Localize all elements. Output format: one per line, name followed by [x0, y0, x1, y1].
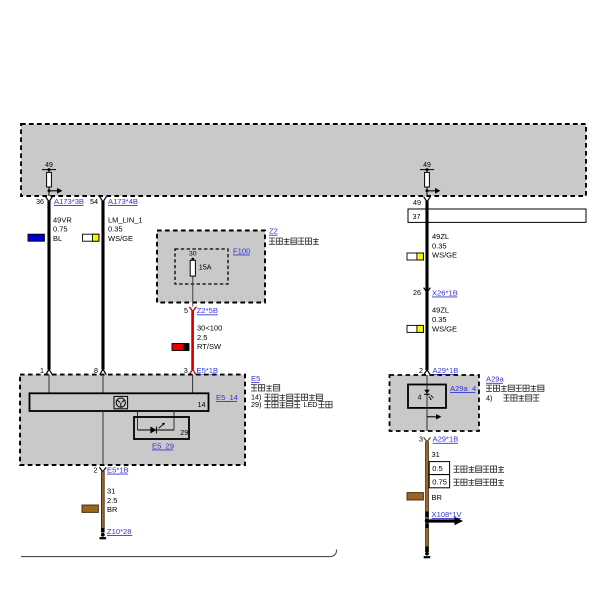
wire gauge option box 0.5: [429, 462, 449, 475]
svg-text:F100: F100: [233, 246, 250, 255]
svg-text:LM_LIN_1: LM_LIN_1: [108, 215, 143, 224]
colour swatch white/yellow WS/GE: [83, 234, 99, 241]
svg-text:A29a_4: A29a_4: [450, 384, 476, 393]
wire pin8 to module 14: [102, 375, 104, 394]
svg-text:LED: LED: [304, 400, 318, 409]
fuse symbol terminal 49 (left feed): [42, 162, 63, 196]
svg-text:X108*1V: X108*1V: [432, 510, 463, 519]
E5 pin 3 connector E5*1B: [184, 366, 218, 375]
F100 fuse box outline: [175, 249, 228, 284]
svg-text:A29*1B: A29*1B: [433, 366, 459, 375]
pin 36 connector A173*3B: [36, 197, 84, 206]
svg-text:A173*3B: A173*3B: [54, 197, 84, 206]
E5 pin 2 connector E5*1B: [94, 465, 129, 474]
LED lamp symbol in A29a_4: [424, 385, 433, 408]
svg-text:BL: BL: [53, 234, 62, 243]
colour swatch brown BR right: [407, 493, 423, 500]
svg-text:Z10*28: Z10*28: [107, 527, 132, 536]
label E5 description: [251, 374, 332, 409]
wire pin3 to module 14: [192, 375, 194, 394]
svg-text:0.75: 0.75: [432, 478, 447, 487]
fuse symbol terminal 49 (right feed): [420, 162, 441, 196]
svg-text:15A: 15A: [199, 263, 212, 272]
wire gauge option box 0.75: [429, 475, 449, 488]
svg-text:30: 30: [189, 251, 197, 258]
label E5_14: [216, 393, 238, 402]
label 49ZL 0.35 WS/GE (upper): [432, 232, 457, 260]
svg-text:0.75: 0.75: [53, 225, 68, 234]
label 4 in module: [418, 395, 422, 402]
pin 54 connector A173*4B: [90, 197, 138, 206]
label A29a_4: [450, 384, 476, 393]
svg-text:BR: BR: [107, 505, 118, 514]
label F100: [233, 246, 250, 255]
svg-text:49ZL: 49ZL: [432, 306, 449, 315]
svg-text:31: 31: [432, 450, 440, 459]
ground point right: [424, 547, 431, 558]
ground wire 31 BR from A29a pin 3: [425, 442, 429, 553]
svg-text:RT/SW: RT/SW: [197, 342, 222, 351]
wire A29a_4 to pin 3: [426, 408, 428, 431]
svg-text:3: 3: [419, 435, 423, 444]
A29a pin 3 connector A29*1B: [419, 435, 458, 444]
svg-text:4): 4): [486, 393, 492, 402]
svg-text:BR: BR: [432, 493, 443, 502]
power distribution box (junction box electronics): [21, 124, 586, 196]
label 14: [198, 400, 206, 409]
label Z2: [269, 227, 278, 236]
label LM_LIN_1 0.35 WS/GE: [108, 215, 143, 243]
module E5_29 turn signal LED: [134, 417, 189, 439]
svg-text:31: 31: [107, 486, 115, 495]
svg-text:3: 3: [184, 366, 188, 375]
label 30<100 2.5 RT/SW: [197, 324, 222, 352]
E5 pin 8 connector: [94, 366, 106, 375]
label standard mirror chinese: [454, 479, 505, 485]
svg-text:2: 2: [419, 366, 423, 375]
wire pin1 to module 14: [48, 375, 50, 394]
svg-text:WS/GE: WS/GE: [432, 324, 457, 333]
svg-text:0.35: 0.35: [108, 225, 123, 234]
label BR right: [432, 493, 443, 502]
svg-text:54: 54: [90, 197, 98, 206]
svg-text:36: 36: [36, 197, 44, 206]
A29a pin 2 connector A29*1B: [419, 366, 458, 375]
colour swatch white/yellow lower right: [407, 325, 423, 332]
wire 49VR (BL) from pin 36 to E5 pin 1: [47, 201, 50, 370]
colour swatch blue BL: [28, 234, 44, 241]
LED diode symbol in module 29: [138, 423, 175, 434]
wire into A29a_4: [426, 375, 428, 385]
svg-text:1: 1: [40, 366, 44, 375]
svg-text:4: 4: [418, 395, 422, 402]
ground point Z10*28: [100, 528, 107, 538]
svg-text:WS/GE: WS/GE: [108, 234, 133, 243]
frame line bottom left: [21, 550, 337, 557]
svg-text:E5*1B: E5*1B: [107, 466, 129, 475]
svg-text:E5_29: E5_29: [152, 441, 174, 450]
svg-text:14: 14: [198, 400, 206, 409]
label X108*1V: [432, 510, 463, 519]
label 49ZL 0.35 WS/GE (lower): [432, 306, 457, 334]
connector X26*1B pin 26: [413, 288, 458, 298]
svg-text:49: 49: [45, 162, 53, 169]
svg-text:0.5: 0.5: [432, 464, 442, 473]
svg-text:A29a: A29a: [486, 375, 505, 384]
svg-text:49ZL: 49ZL: [432, 232, 449, 241]
ground wire 31 BR from E5 pin 2: [101, 471, 105, 533]
svg-text:8: 8: [94, 366, 98, 375]
svg-text:E5_14: E5_14: [216, 393, 238, 402]
svg-text:30<100: 30<100: [197, 324, 222, 333]
node 37 splice box: [408, 209, 586, 222]
ECU icon in module 14: [114, 396, 128, 408]
svg-text:49: 49: [413, 198, 421, 207]
label 31 right: [432, 450, 440, 459]
wire module14 to module29 right: [173, 411, 175, 430]
svg-text:2: 2: [94, 465, 98, 474]
svg-text:Z2: Z2: [269, 227, 278, 236]
label 29: [180, 428, 188, 437]
arrow to X108*1V: [425, 512, 463, 529]
label E5_29: [152, 441, 174, 450]
colour swatch brown BR left: [82, 505, 98, 512]
wire LM_LIN_1 (WS/GE) from pin 54 to E5 pin 8: [101, 201, 104, 370]
module A29a_4 auxiliary turn signal: [408, 385, 446, 408]
wire module14 to pin 2: [102, 411, 104, 465]
svg-text:49: 49: [423, 162, 431, 169]
arrow direction indicator in A29a: [427, 414, 442, 419]
E5 right headlight box: [20, 375, 245, 465]
Z2 rear fuse carrier box: [157, 231, 265, 303]
svg-text:29: 29: [180, 428, 188, 437]
wire 49ZL (WS/GE) from pin 49 through node 37 to A29a pin 2: [425, 201, 428, 371]
svg-text:X26*1B: X26*1B: [432, 288, 458, 297]
label Z10*28: [107, 527, 132, 536]
svg-text:Z2*5B: Z2*5B: [197, 306, 218, 315]
connector Z2*5B pin 5: [184, 306, 218, 315]
svg-text:29): 29): [251, 400, 261, 409]
svg-text:0.35: 0.35: [432, 315, 447, 324]
module E5_14 front light electronics: [30, 393, 209, 411]
wire module14 to module29 left: [137, 411, 139, 430]
A29a driver side mirror box: [390, 375, 480, 431]
E5 pin 1 connector: [40, 366, 52, 375]
label Z2 chinese (rear fuse carrier): [269, 238, 319, 244]
label 49VR 0.75 BL: [53, 215, 72, 243]
label 31 2.5 BR: [107, 486, 118, 514]
svg-text:49VR: 49VR: [53, 215, 72, 224]
wire 30<100 RT/SW from Z2*5B to E5 pin 3: [191, 311, 194, 370]
colour swatch red/black RT/SW: [172, 344, 189, 351]
svg-text:26: 26: [413, 288, 421, 297]
svg-text:5: 5: [184, 306, 188, 315]
colour swatch white/yellow upper right: [407, 253, 423, 260]
fuse F100 15A: [189, 251, 212, 307]
svg-text:0.35: 0.35: [432, 241, 447, 250]
svg-text:2.5: 2.5: [107, 496, 117, 505]
pin 49 (right feed exit): [413, 197, 430, 207]
svg-text:37: 37: [413, 212, 421, 221]
svg-text:E5: E5: [251, 374, 260, 383]
svg-text:A173*4B: A173*4B: [108, 197, 138, 206]
svg-text:2.5: 2.5: [197, 333, 207, 342]
label luxury mirror chinese: [454, 466, 505, 472]
svg-text:WS/GE: WS/GE: [432, 251, 457, 260]
svg-text:A29*1B: A29*1B: [433, 435, 459, 444]
label A29a description: [486, 375, 544, 403]
